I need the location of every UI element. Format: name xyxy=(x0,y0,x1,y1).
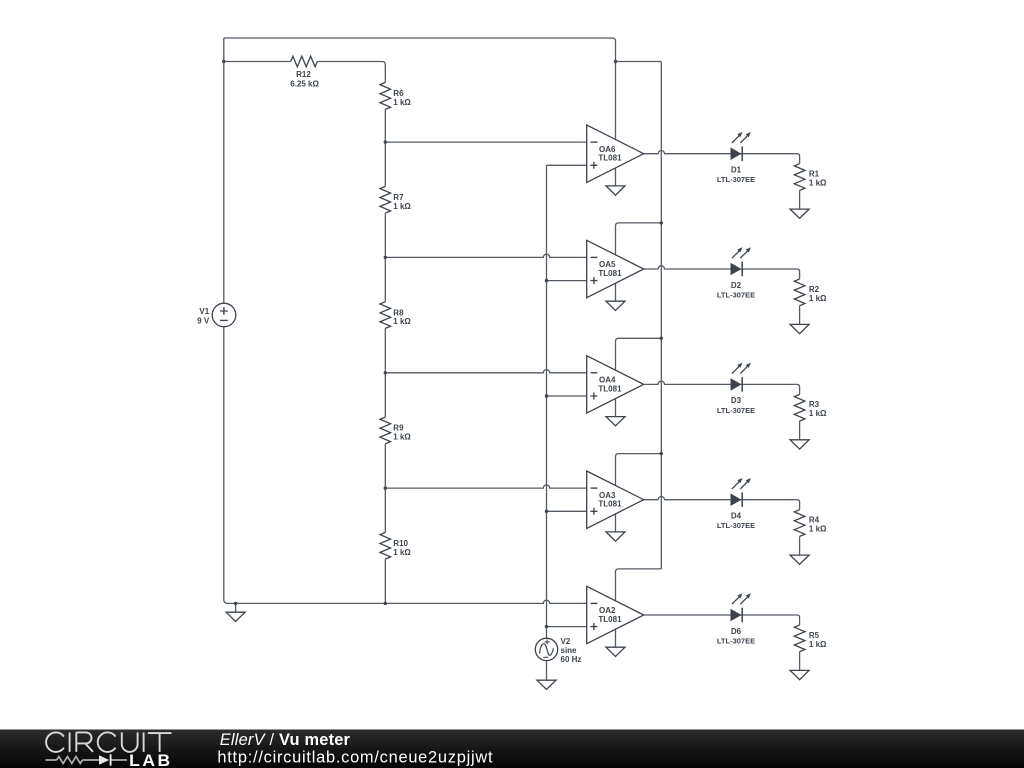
svg-text:R2: R2 xyxy=(809,285,820,294)
svg-text:D2: D2 xyxy=(731,281,742,290)
svg-text:R10: R10 xyxy=(393,539,408,548)
svg-text:TL081: TL081 xyxy=(598,269,622,278)
svg-text:R1: R1 xyxy=(809,170,820,179)
svg-text:OA6: OA6 xyxy=(599,145,616,154)
svg-text:6.25 kΩ: 6.25 kΩ xyxy=(290,80,319,89)
svg-text:R3: R3 xyxy=(809,400,820,409)
svg-text:9 V: 9 V xyxy=(197,316,210,325)
svg-text:LTL-307EE: LTL-307EE xyxy=(717,175,755,184)
svg-text:1 kΩ: 1 kΩ xyxy=(393,548,411,557)
svg-text:http://circuitlab.com/cneue2uz: http://circuitlab.com/cneue2uzpjjwt xyxy=(217,749,493,767)
svg-text:D3: D3 xyxy=(731,396,742,405)
svg-text:1 kΩ: 1 kΩ xyxy=(809,179,827,188)
svg-text:1 kΩ: 1 kΩ xyxy=(809,409,827,418)
svg-text:R4: R4 xyxy=(809,516,820,525)
svg-text:OA4: OA4 xyxy=(599,376,616,385)
svg-text:R12: R12 xyxy=(296,70,311,79)
svg-text:TL081: TL081 xyxy=(598,154,622,163)
svg-text:1 kΩ: 1 kΩ xyxy=(393,433,411,442)
svg-text:LTL-307EE: LTL-307EE xyxy=(717,637,755,646)
svg-text:TL081: TL081 xyxy=(598,615,622,624)
svg-text:LTL-307EE: LTL-307EE xyxy=(717,521,755,530)
svg-text:EllerV / Vu meter: EllerV / Vu meter xyxy=(220,731,351,749)
svg-text:TL081: TL081 xyxy=(598,500,622,509)
svg-text:OA5: OA5 xyxy=(599,260,616,269)
svg-text:R5: R5 xyxy=(809,631,820,640)
svg-text:1 kΩ: 1 kΩ xyxy=(393,202,411,211)
svg-text:LTL-307EE: LTL-307EE xyxy=(717,406,755,415)
svg-text:OA2: OA2 xyxy=(599,606,616,615)
svg-text:V2: V2 xyxy=(561,637,571,646)
svg-text:R8: R8 xyxy=(393,308,404,317)
svg-text:1 kΩ: 1 kΩ xyxy=(809,294,827,303)
svg-text:1 kΩ: 1 kΩ xyxy=(809,640,827,649)
svg-text:1 kΩ: 1 kΩ xyxy=(393,317,411,326)
svg-text:1 kΩ: 1 kΩ xyxy=(809,525,827,534)
svg-text:R6: R6 xyxy=(393,89,404,98)
svg-text:1 kΩ: 1 kΩ xyxy=(393,98,411,107)
svg-text:D6: D6 xyxy=(731,627,742,636)
svg-text:OA3: OA3 xyxy=(599,491,616,500)
svg-text:60 Hz: 60 Hz xyxy=(561,655,582,664)
svg-text:sine: sine xyxy=(561,646,578,655)
svg-text:V1: V1 xyxy=(199,307,209,316)
svg-text:LTL-307EE: LTL-307EE xyxy=(717,291,755,300)
svg-text:LAB: LAB xyxy=(129,752,173,768)
svg-text:TL081: TL081 xyxy=(598,384,622,393)
svg-text:D1: D1 xyxy=(731,166,742,175)
svg-text:R9: R9 xyxy=(393,424,404,433)
svg-text:D4: D4 xyxy=(731,512,742,521)
svg-text:R7: R7 xyxy=(393,193,404,202)
